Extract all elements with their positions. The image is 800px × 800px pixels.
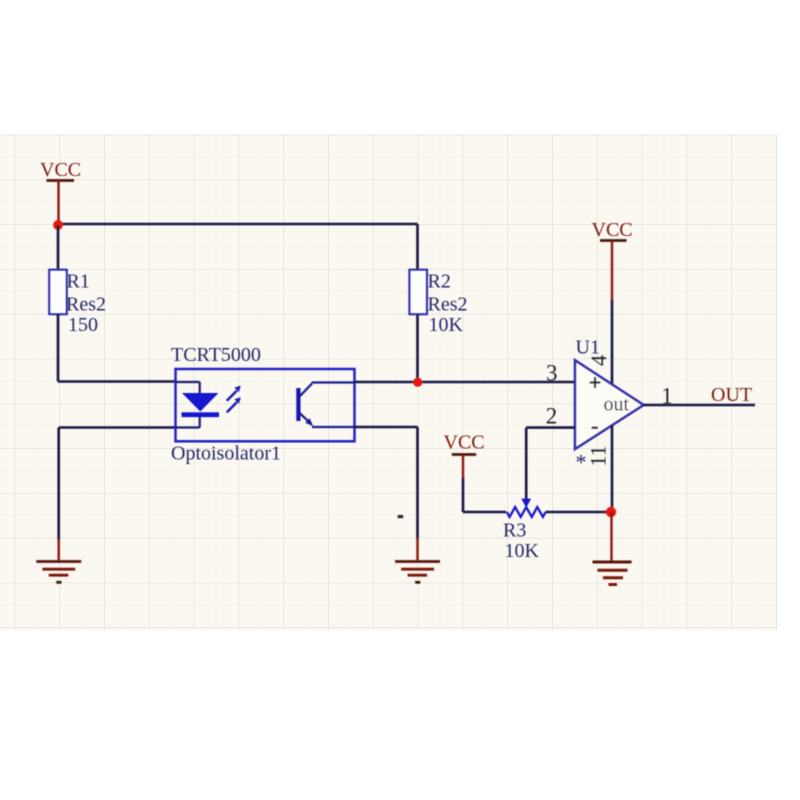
svg-text:VCC: VCC <box>592 219 633 241</box>
potentiometer R3 <box>503 499 546 562</box>
stray dash artifact <box>398 515 404 518</box>
schematic canvas background <box>0 135 777 631</box>
svg-text:3: 3 <box>546 361 558 386</box>
wire R3 to node <box>546 511 611 514</box>
resistor R2 <box>410 270 468 336</box>
svg-text:R1: R1 <box>67 271 90 293</box>
svg-text:Optoisolator1: Optoisolator1 <box>171 443 281 465</box>
svg-text:VCC: VCC <box>40 159 81 181</box>
ground GND2 (middle) <box>395 538 440 582</box>
power port VCC3 (left of R3) <box>444 432 485 480</box>
svg-text:10K: 10K <box>505 540 540 562</box>
wire optoisolator cathode to ground <box>59 428 176 541</box>
junction node dot 3 <box>606 507 616 517</box>
LED inside optoisolator <box>176 382 220 428</box>
optoisolator U TCRT5000 body <box>171 344 355 465</box>
svg-text:R2: R2 <box>428 271 451 293</box>
wire R2 top <box>416 224 419 270</box>
wire R1 top <box>57 225 60 270</box>
svg-text:Res2: Res2 <box>66 294 106 316</box>
svg-text:R3: R3 <box>503 520 526 542</box>
wire R1 bottom to optoisolator anode <box>58 314 176 382</box>
opamp pin 4 wire <box>611 300 614 385</box>
svg-text:TCRT5000: TCRT5000 <box>171 344 261 366</box>
LED emission arrow 1 <box>227 386 241 401</box>
resistor R1 <box>49 270 106 336</box>
svg-text:OUT: OUT <box>711 384 752 406</box>
svg-text:out: out <box>604 394 630 416</box>
opamp pin 11 wire <box>611 425 614 512</box>
power port VCC2 (above opamp) <box>592 219 633 302</box>
junction node dot 2 <box>413 378 422 387</box>
svg-text:*: * <box>576 450 587 475</box>
wire opamp output <box>644 404 756 407</box>
svg-text:10K: 10K <box>429 314 464 336</box>
ground GND1 (left) <box>36 539 81 582</box>
ground GND3 (right) <box>593 512 632 585</box>
op-amp U1 <box>575 337 644 475</box>
wire VCC3 to R3 <box>463 478 506 512</box>
wire opamp -input <box>526 428 575 499</box>
wire top horizontal <box>58 223 418 226</box>
svg-text:4: 4 <box>586 355 611 366</box>
phototransistor inside optoisolator <box>296 383 354 428</box>
svg-text:11: 11 <box>586 445 611 466</box>
LED emission arrow 2 <box>227 397 241 412</box>
junction node dot 1 <box>53 220 63 230</box>
wire emitter to ground <box>355 427 418 539</box>
wire collector to opamp +input (node) <box>355 381 576 384</box>
wire R2 bottom to node <box>416 314 419 382</box>
svg-text:150: 150 <box>68 314 98 336</box>
svg-text:2: 2 <box>546 403 558 428</box>
power port VCC1 (top left) <box>40 159 81 225</box>
svg-text:Res2: Res2 <box>428 294 468 316</box>
svg-text:VCC: VCC <box>444 432 485 454</box>
